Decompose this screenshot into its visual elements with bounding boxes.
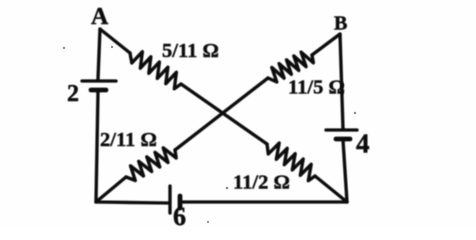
svg-text:2: 2 [67,81,79,107]
wire: bottom left segment [96,202,168,203]
battery 4 short plate [336,137,350,142]
battery 6 long plate [168,186,171,213]
svg-text:5/11 Ω: 5/11 Ω [162,40,219,62]
wire: resistor 11/2 to bottom-right corner [315,176,347,202]
wire: bottom right segment [181,200,347,203]
svg-text:A: A [91,4,109,30]
wire: A to resistor 5/11 [100,29,130,53]
wire: B to resistor 11/5 [312,34,340,55]
speck dot [354,112,356,114]
svg-text:4: 4 [356,129,370,159]
resistor 11/5 ohm zigzag [268,52,313,82]
battery 4 long plate [326,128,357,131]
wire: battery 4 to bottom-right corner [343,140,347,202]
battery 6 short plate [178,196,183,208]
wire: battery 2 to bottom-left corner [96,91,98,202]
resistor 5/11 ohm zigzag [130,52,181,89]
battery 2 short plate [91,88,106,93]
wire: resistor 2/11 to bottom-left corner [96,177,126,202]
svg-text:11/2 Ω: 11/2 Ω [233,172,290,194]
svg-text:11/5 Ω: 11/5 Ω [288,77,345,99]
speck dot [111,46,113,48]
wire: right side B to battery 4 [340,34,343,129]
svg-text:B: B [334,13,347,35]
wire: left side A to battery 2 [98,29,100,79]
speck dot [226,187,229,190]
wire: resistor 5/11 to resistor 11/2 (through crossing) [181,84,267,144]
speck dot [207,221,209,223]
resistor 2/11 ohm zigzag [126,148,176,181]
battery 2 long plate [82,79,116,82]
svg-text:2/11 Ω: 2/11 Ω [100,129,157,151]
speck dot [63,47,65,49]
resistor 11/2 ohm zigzag [267,143,315,181]
wire: resistor 11/5 to resistor 2/11 (through crossing) [175,78,268,150]
svg-text:6: 6 [173,202,186,229]
